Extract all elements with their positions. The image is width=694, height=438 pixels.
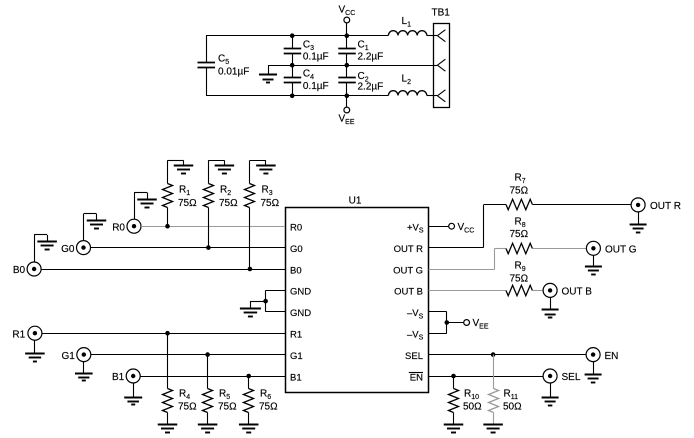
label VEE supply [473, 318, 489, 331]
capacitor C1 [338, 36, 356, 65]
junction mid C1 [345, 63, 350, 68]
ground connector R1in [25, 340, 45, 361]
label U1 [349, 196, 362, 207]
svg-text:2.2µF: 2.2µF [358, 52, 384, 63]
junction -Vs bracket [445, 320, 450, 325]
svg-text:R0: R0 [112, 222, 125, 233]
resistor R10 50ohm [449, 389, 459, 413]
label TB1 [432, 8, 451, 19]
pin B0 (U1 left, label) [290, 265, 302, 276]
resistor R5 75ohm [203, 389, 213, 413]
connector G0 [77, 241, 91, 255]
ground middle rail [259, 65, 292, 82]
wire R9 to OUT B [533, 290, 543, 292]
pin EN (U1 right, label) [409, 372, 423, 383]
resistor R1 75ohm [163, 184, 173, 208]
pin TB1-3 [437, 90, 445, 102]
inductor L2 [388, 91, 426, 96]
connector EN [586, 348, 600, 362]
wire L2 to TB1 [427, 95, 438, 97]
junction R1/R4 [165, 331, 170, 336]
wire middle rail [268, 65, 433, 67]
svg-text:B1: B1 [290, 372, 302, 383]
label R9 value [510, 261, 529, 285]
connector OUT R [631, 198, 645, 212]
svg-text:75Ω: 75Ω [510, 273, 529, 284]
wire top rail [206, 35, 388, 37]
junction top C3 [290, 33, 295, 38]
pin OUT R (U1 right, label) [394, 244, 424, 255]
pin –VS (U1 right, label) [407, 330, 424, 342]
node VCC supply [449, 223, 455, 229]
junction top C1 [345, 33, 350, 38]
node VEE label [339, 114, 355, 127]
connector OUT G [586, 241, 600, 255]
wire G1 net [91, 354, 285, 356]
wire -Vs bracket [429, 312, 447, 334]
wire to VEE [447, 322, 464, 324]
wire B1 net [140, 376, 285, 378]
wire R1 net [42, 333, 285, 335]
wire OUT B net [429, 290, 507, 292]
pin G0 (U1 left, label) [290, 244, 303, 255]
ground resistor R11 [483, 413, 503, 433]
wire R11 top [493, 355, 495, 389]
label VCC supply [458, 222, 475, 235]
svg-text:OUT R: OUT R [394, 244, 424, 255]
pin OUT B (U1 right, label) [394, 287, 423, 298]
resistor R6 75ohm [244, 389, 254, 413]
pin TB1-2 [433, 59, 445, 71]
svg-text:GND: GND [290, 287, 311, 298]
label SEL connector [562, 372, 581, 383]
wire R3 to B0 net [249, 208, 251, 270]
label R4 value [178, 389, 197, 413]
wire G0 net [91, 247, 286, 249]
junction mid C3 [290, 63, 295, 68]
svg-text:G1: G1 [290, 351, 303, 362]
svg-text:75Ω: 75Ω [510, 186, 529, 197]
pin –VS (U1 right, label) [407, 308, 424, 320]
svg-text:R1: R1 [12, 329, 25, 340]
svg-text:50Ω: 50Ω [463, 402, 482, 413]
wire R1 to R0 net [167, 208, 169, 227]
pin B1 (U1 left, label) [290, 372, 302, 383]
ground connector B1 [124, 383, 142, 405]
capacitor C3 [284, 36, 302, 65]
ground connector G0 [84, 214, 107, 241]
label C1 value [358, 40, 384, 63]
op-amp U1 body [286, 208, 429, 393]
label R10 value [463, 389, 482, 413]
svg-text:75Ω: 75Ω [259, 402, 278, 413]
svg-text:75Ω: 75Ω [219, 198, 238, 209]
junction bot C4 [290, 94, 295, 99]
svg-text:OUT G: OUT G [605, 245, 637, 256]
svg-text:0.1µF: 0.1µF [303, 81, 329, 92]
label R3 value [261, 185, 280, 210]
label OUT B connector [562, 287, 593, 298]
resistor R3 75ohm [245, 184, 255, 208]
wire OUT G net [429, 248, 507, 269]
connector G1 [77, 348, 91, 362]
label L2 [402, 74, 412, 87]
svg-text:B0: B0 [290, 265, 302, 276]
connector SEL [543, 369, 557, 383]
svg-text:R1: R1 [290, 330, 302, 341]
resistor R4 75ohm [163, 389, 173, 413]
capacitor C5 [198, 36, 216, 96]
wire R6 top [248, 376, 250, 389]
label R6 value [259, 389, 278, 413]
label R1 value [178, 185, 197, 210]
wire R4 top [167, 333, 169, 388]
junction B1/R6 [246, 374, 251, 379]
svg-text:EN: EN [410, 372, 423, 383]
svg-text:OUT B: OUT B [394, 287, 423, 298]
svg-text:75Ω: 75Ω [510, 229, 529, 240]
pin TB1-1 [437, 30, 445, 42]
junction GND bracket [263, 299, 268, 304]
connector B1 [126, 369, 140, 383]
wire VCC stub [346, 23, 348, 36]
pin OUT G (U1 right, label) [393, 265, 423, 276]
resistor R11 50ohm [489, 389, 499, 413]
wire OUT R net [429, 205, 507, 248]
label R7 value [510, 173, 529, 197]
pin SEL (U1 right, label) [405, 351, 423, 362]
connector R0 [127, 219, 141, 233]
svg-text:TB1: TB1 [432, 8, 451, 19]
svg-text:0.1µF: 0.1µF [303, 52, 329, 63]
wire R10 top [453, 376, 455, 389]
label OUT G connector [605, 245, 637, 256]
ground resistor R3 [250, 160, 276, 183]
connector OUT B [543, 283, 557, 297]
wire R5 top [207, 355, 209, 389]
resistor R8 75ohm [506, 243, 532, 253]
ground resistor R2 [208, 160, 234, 183]
wire bottom rail [206, 95, 388, 97]
svg-text:75Ω: 75Ω [178, 198, 197, 209]
ground U1 GND [240, 301, 266, 316]
label R8 value [510, 216, 529, 240]
svg-text:50Ω: 50Ω [503, 402, 522, 413]
junction R2/G0 [206, 245, 211, 250]
svg-text:U1: U1 [349, 196, 362, 207]
svg-text:GND: GND [290, 308, 311, 319]
ground connector R0 [134, 193, 157, 220]
junction SEL/R11 [491, 352, 496, 357]
svg-text:G0: G0 [61, 244, 75, 255]
label C4 value [303, 69, 329, 92]
resistor R7 75ohm [506, 199, 532, 209]
svg-text:OUT G: OUT G [393, 265, 423, 276]
label B0 connector [13, 265, 26, 276]
wire VEE stub [346, 96, 348, 107]
ground connector G1 [75, 362, 93, 381]
wire R2 to G0 net [208, 208, 210, 248]
wire SEL net [429, 354, 586, 356]
svg-text:75Ω: 75Ω [261, 198, 280, 209]
label C5 value [218, 54, 249, 78]
svg-text:75Ω: 75Ω [218, 402, 237, 413]
junction G1/R5 [205, 352, 210, 357]
ground connector OUT G [585, 256, 602, 275]
label C2 value [358, 71, 384, 92]
label C3 value [303, 40, 329, 63]
label R1 connector [12, 329, 25, 340]
ground resistor R4 [158, 413, 178, 433]
svg-text:G0: G0 [290, 244, 303, 255]
ground resistor R6 [239, 413, 259, 433]
label L1 [402, 16, 412, 29]
ground resistor R1 [168, 160, 194, 183]
label R11 value [503, 389, 522, 413]
wire R0 net [141, 226, 285, 228]
node VCC label [339, 5, 356, 18]
node VEE supply [464, 320, 470, 326]
junction bot C2 [345, 94, 350, 99]
capacitor C2 [338, 65, 356, 96]
pin R0 (U1 left, label) [290, 223, 302, 234]
wire R7 to OUT R [533, 204, 631, 206]
pin +VS (U1 right, label) [407, 223, 424, 235]
label G1 connector [61, 351, 75, 362]
wire EN net [429, 376, 543, 378]
svg-text:OUT R: OUT R [650, 201, 681, 212]
ground resistor R5 [198, 413, 218, 433]
node VCC terminal [344, 17, 350, 23]
terminal block TB1 [434, 24, 450, 108]
svg-text:B0: B0 [13, 265, 26, 276]
wire R8 to OUT G [533, 248, 587, 250]
junction EN/R10 [451, 374, 456, 379]
inductor L1 [388, 31, 426, 36]
svg-text:2.2µF: 2.2µF [358, 82, 384, 93]
svg-text:OUT B: OUT B [562, 287, 593, 298]
connector B0 [27, 262, 41, 276]
capacitor C4 [284, 65, 302, 96]
pin R1 (U1 left, label) [290, 330, 302, 341]
wire L1 to TB1 [427, 35, 438, 37]
ground connector OUT R [630, 212, 647, 232]
pin G1 (U1 left, label) [290, 351, 303, 362]
svg-text:SEL: SEL [562, 372, 581, 383]
svg-text:75Ω: 75Ω [178, 402, 197, 413]
ground connector EN [585, 362, 602, 383]
svg-text:B1: B1 [112, 372, 125, 383]
node VEE terminal [344, 107, 350, 113]
svg-text:R0: R0 [290, 223, 302, 234]
label G0 connector [61, 244, 75, 255]
svg-text:EN: EN [605, 351, 619, 362]
label OUT R connector [650, 201, 681, 212]
ground connector OUT B [542, 298, 559, 318]
ground connector SEL [542, 383, 559, 405]
svg-text:SEL: SEL [405, 351, 423, 362]
svg-text:0.01µF: 0.01µF [218, 67, 249, 78]
label R5 value [218, 389, 237, 413]
label R0 connector [112, 222, 125, 233]
label R2 value [219, 185, 238, 210]
connector R1in [28, 326, 42, 340]
wire B0 net [41, 269, 285, 271]
svg-text:G1: G1 [61, 351, 75, 362]
resistor R9 75ohm [506, 285, 532, 295]
wire GND bracket [266, 290, 286, 311]
label B1 connector [112, 372, 125, 383]
pin GND (U1 left, label) [290, 308, 311, 319]
junction R1/R0 [165, 224, 170, 229]
ground connector B0 [34, 235, 57, 263]
wire +Vs stub [429, 226, 449, 228]
label EN connector [605, 351, 619, 362]
junction R3/B0 [248, 267, 253, 272]
ground resistor R10 [444, 413, 464, 433]
resistor R2 75ohm [204, 184, 214, 208]
pin GND (U1 left, label) [290, 287, 311, 298]
